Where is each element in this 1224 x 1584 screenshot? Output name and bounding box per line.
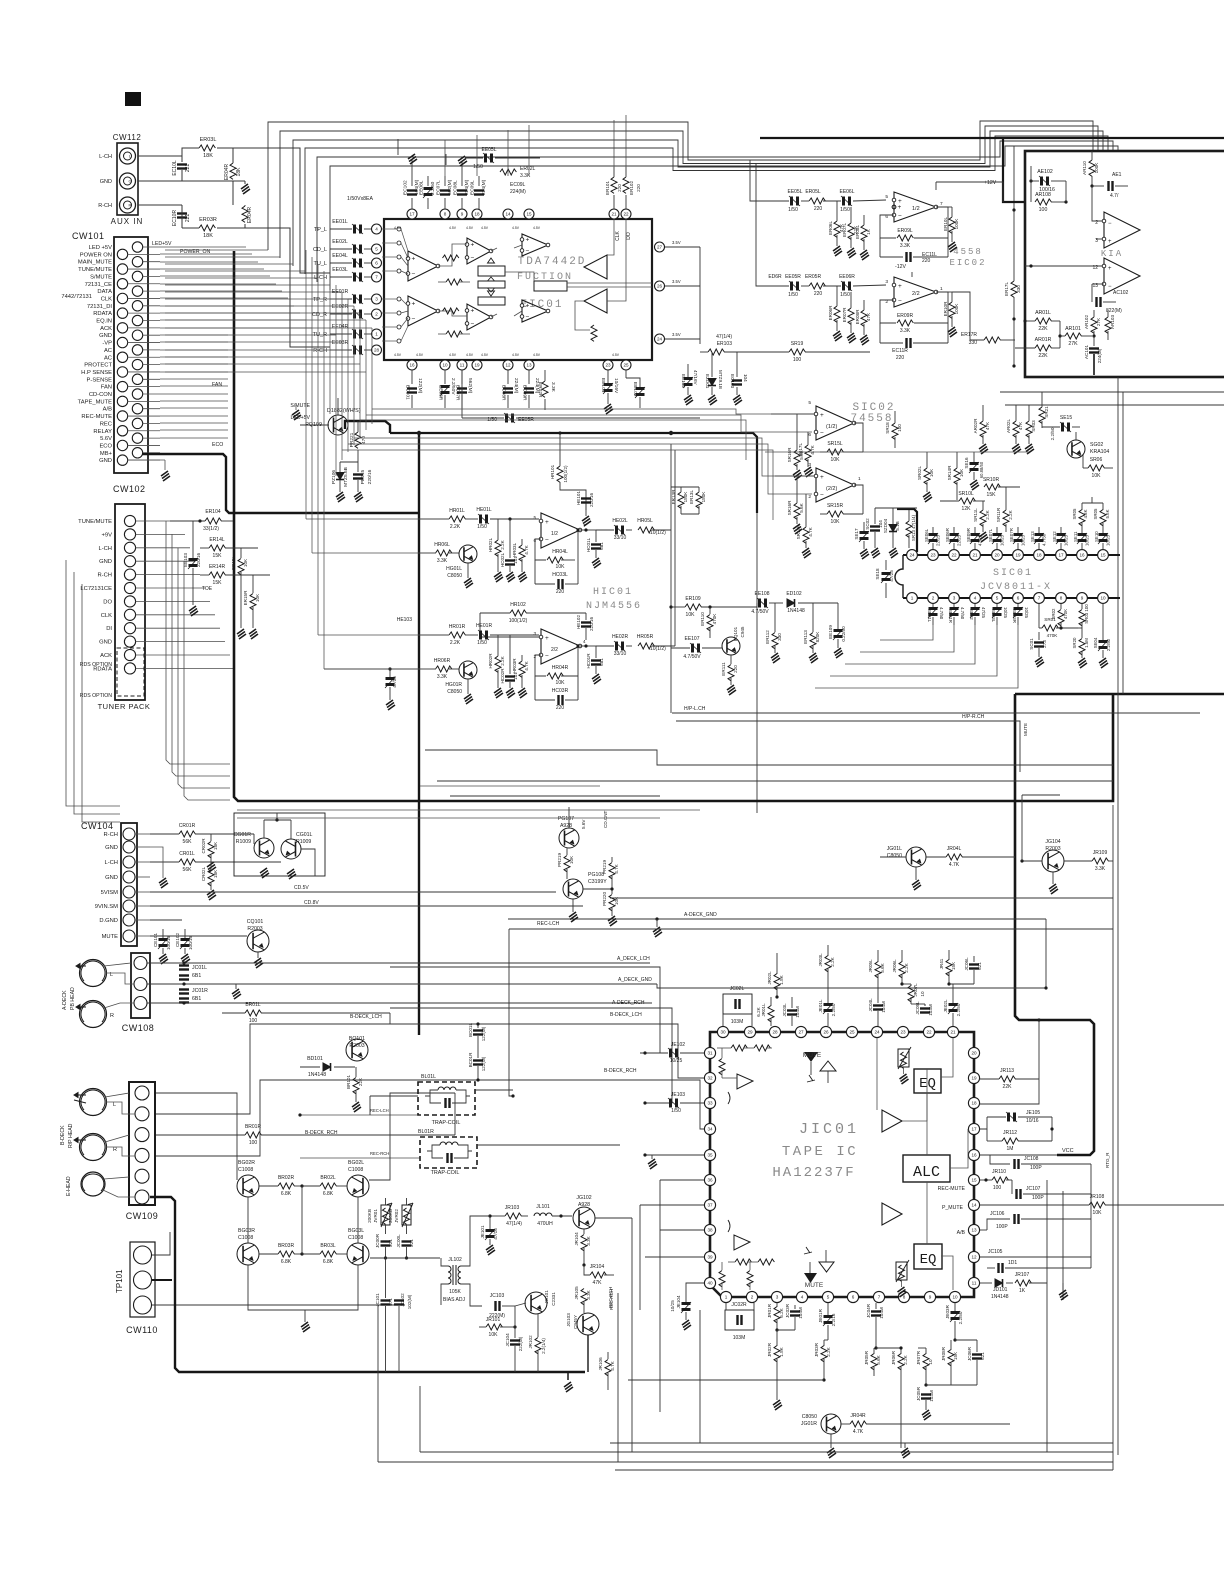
svg-text:JR110: JR110	[992, 1169, 1006, 1175]
svg-text:HR06R: HR06R	[434, 658, 451, 664]
svg-text:B-DECK_RCH: B-DECK_RCH	[305, 1130, 338, 1136]
svg-text:-12V: -12V	[895, 264, 906, 270]
svg-text:R: R	[113, 1147, 117, 1153]
JIC01 bottom pin 3	[771, 1291, 782, 1302]
svg-text:+: +	[898, 283, 902, 290]
svg-text:2.2K: 2.2K	[830, 956, 835, 966]
svg-text:S/MUTE: S/MUTE	[90, 274, 112, 280]
wire left pins 35-40 stubs	[645, 1154, 704, 1156]
wire far-left verticals	[66, 560, 120, 806]
JIC01 top pin 26	[820, 1026, 831, 1037]
svg-text:CLK: CLK	[101, 613, 112, 619]
svg-text:2.2K: 2.2K	[450, 524, 461, 530]
svg-text:4.7/50: 4.7/50	[960, 607, 965, 620]
svg-text:18: 18	[1036, 553, 1042, 558]
svg-text:1/50Vx8EA: 1/50Vx8EA	[347, 196, 373, 202]
wire left-of-JIC verticals	[659, 1180, 661, 1412]
svg-text:1.5M: 1.5M	[1084, 638, 1089, 648]
CW101 pin 22 TAPE_MUTE	[117, 396, 127, 406]
resistor HR05R 10(1/2)	[638, 643, 654, 649]
svg-text:28: 28	[374, 348, 380, 353]
EIC01 pin 27 wire to SIC02 area	[699, 247, 701, 344]
svg-text:10/25: 10/25	[1003, 607, 1008, 619]
CW101 pin 15 AC	[132, 345, 142, 355]
svg-text:SE03L: SE03L	[991, 609, 996, 623]
svg-text:JR01L: JR01L	[761, 1003, 766, 1017]
svg-text:37: 37	[707, 1203, 713, 1208]
JIC01 left pin 39	[704, 1251, 715, 1262]
CW109 pin 6	[135, 1190, 149, 1204]
wire bottom long buses	[610, 1442, 1113, 1444]
capacitor EE01R input pin 3	[372, 294, 382, 304]
svg-text:GND: GND	[99, 458, 112, 464]
svg-text:JIC01: JIC01	[799, 1121, 859, 1138]
svg-text:5: 5	[808, 400, 811, 406]
svg-text:EE01L: EE01L	[332, 219, 348, 225]
svg-text:HC03L: HC03L	[552, 572, 568, 578]
SIC01 bottom pin 2	[928, 593, 939, 604]
resistor HR01L 2.2K	[449, 516, 465, 522]
EIC01 bottom pin 19	[472, 360, 482, 370]
CW109 pin 3	[135, 1128, 149, 1142]
CW109 pin 4	[135, 1148, 149, 1162]
svg-text:56K: 56K	[183, 839, 193, 845]
resistor ER104 33(1/2)	[205, 518, 221, 524]
wire HIC01 out1	[580, 529, 596, 531]
capacitor BC01R 122(M)	[473, 1061, 483, 1065]
svg-text:16: 16	[409, 363, 415, 368]
JIC01 top pin 28	[769, 1026, 780, 1037]
JIC01 bottom pin 7	[873, 1291, 884, 1302]
wire +12V thick feed	[760, 137, 1224, 139]
capacitor SE01R 4.7/50	[949, 607, 959, 618]
svg-text:3: 3	[953, 596, 956, 601]
svg-text:7442/72131: 7442/72131	[61, 294, 92, 300]
CW101 pin 29 MB+	[132, 448, 142, 458]
capacitor HC02R 101	[505, 677, 515, 681]
wire right vertical x1118 extended	[1117, 720, 1119, 1455]
svg-text:10: 10	[952, 1295, 958, 1300]
svg-text:100P: 100P	[1032, 1195, 1044, 1201]
capacitor JC02L 103M	[723, 994, 752, 1014]
svg-text:JC00L: JC00L	[396, 1234, 401, 1248]
svg-text:JR104: JR104	[574, 1232, 579, 1246]
svg-text:103M: 103M	[731, 1019, 744, 1025]
svg-text:23: 23	[900, 1030, 906, 1035]
svg-text:ER113: ER113	[803, 630, 808, 644]
A-DECK head L	[80, 960, 107, 987]
svg-text:14: 14	[505, 212, 511, 217]
svg-text:25: 25	[623, 363, 629, 368]
svg-text:4.5V: 4.5V	[481, 226, 489, 230]
svg-text:CG01L: CG01L	[296, 832, 313, 838]
svg-text:2.2K: 2.2K	[985, 509, 990, 519]
svg-text:20: 20	[971, 1051, 977, 1056]
svg-text:100: 100	[1039, 207, 1048, 213]
resistor SR10L 12K	[959, 498, 975, 504]
svg-text:G: G	[128, 179, 131, 184]
svg-text:1.5K: 1.5K	[779, 1346, 784, 1356]
svg-text:EIC02: EIC02	[949, 258, 986, 268]
svg-text:ER07R: ER07R	[842, 307, 847, 322]
svg-text:AR102: AR102	[1084, 315, 1089, 329]
JIC01 EQ block bottom	[914, 1244, 942, 1269]
svg-text:HR02L: HR02L	[488, 537, 493, 552]
svg-text:JG104: JG104	[1045, 839, 1060, 845]
svg-text:CD_L: CD_L	[313, 247, 327, 253]
svg-text:220: 220	[636, 184, 641, 192]
svg-text:SR02: SR02	[1051, 608, 1056, 620]
wire trap coil feed	[370, 1095, 418, 1097]
resistor JR108 10K	[1089, 1202, 1105, 1208]
svg-text:HG01R: HG01R	[445, 682, 462, 688]
CW102 pin 9 DI	[124, 623, 135, 634]
JIC01 top pin 27	[795, 1026, 806, 1037]
svg-text:EC11R: EC11R	[892, 348, 908, 354]
resistor JR103 47(1/4)	[505, 1213, 521, 1219]
svg-text:3.3K: 3.3K	[900, 328, 911, 334]
capacitor JC00L 221	[402, 1242, 412, 1246]
svg-text:5: 5	[827, 1295, 830, 1300]
svg-text:ER17R: ER17R	[961, 332, 978, 338]
svg-text:224(M): 224(M)	[481, 179, 487, 195]
svg-text:HR04L: HR04L	[552, 549, 568, 555]
svg-text:+: +	[471, 242, 475, 249]
svg-text:4.5V: 4.5V	[416, 353, 424, 357]
net +12V	[935, 182, 937, 190]
capacitor EC11R 220	[907, 338, 911, 348]
svg-text:CW104: CW104	[81, 821, 114, 831]
op-amp EIC02 1/2	[893, 206, 895, 208]
svg-text:17: 17	[1058, 553, 1064, 558]
svg-text:220/16: 220/16	[196, 553, 201, 567]
svg-text:EC102: EC102	[403, 180, 409, 195]
EIC01 bottom pin 25	[621, 360, 631, 370]
resistor HR03R 4.7K	[519, 661, 525, 677]
resistor HR04R 10K feedback	[535, 655, 546, 676]
svg-text:47(1/4): 47(1/4)	[716, 334, 732, 340]
ground A-deck mid	[232, 989, 241, 999]
svg-text:−: −	[471, 321, 475, 328]
capacitor SE02 47/25	[970, 607, 980, 618]
svg-text:C945: C945	[740, 626, 745, 637]
svg-text:EE05L: EE05L	[787, 189, 802, 195]
svg-text:JC01R: JC01R	[192, 988, 208, 994]
CW102 pin 4 GND	[124, 556, 135, 567]
svg-text:+: +	[820, 412, 824, 419]
svg-text:SC01: SC01	[1029, 638, 1034, 650]
JIC01 right pin 13	[968, 1224, 979, 1235]
svg-text:224(M): 224(M)	[464, 179, 470, 195]
capacitor JC107 100P	[1017, 1189, 1021, 1199]
svg-text:A/B: A/B	[957, 1230, 966, 1236]
svg-text:ER111: ER111	[721, 662, 726, 676]
svg-text:6B1: 6B1	[192, 973, 201, 979]
capacitor HE102 220/16	[581, 623, 591, 627]
svg-text:222(M): 222(M)	[518, 1336, 523, 1351]
svg-text:1D1: 1D1	[1008, 1260, 1017, 1266]
svg-text:4.5V: 4.5V	[612, 353, 620, 357]
resistor JR06L 2.2K	[899, 962, 905, 978]
svg-text:SE13: SE13	[1030, 531, 1035, 542]
capacitor BC01L 122(M)	[473, 1031, 483, 1035]
svg-text:3.5V: 3.5V	[672, 332, 681, 337]
svg-text:ED6R: ED6R	[768, 274, 782, 280]
svg-text:EQ: EQ	[920, 1252, 937, 1268]
svg-text:−: −	[820, 430, 824, 437]
svg-text:EQ101: EQ101	[733, 626, 738, 641]
JIC01 right pin 12	[968, 1251, 979, 1262]
svg-text:220: 220	[617, 184, 622, 192]
JIC01 inner network bottom-left	[734, 1235, 750, 1250]
CW101 pin 2 POWER ON	[117, 249, 127, 259]
svg-text:HR02R: HR02R	[488, 653, 493, 669]
svg-text:2.2/50: 2.2/50	[1106, 638, 1111, 651]
capacitor EE04L input pin 6	[372, 258, 382, 268]
svg-text:RDS OPTION: RDS OPTION	[80, 662, 113, 668]
svg-text:C945Y: C945Y	[573, 1315, 578, 1329]
svg-text:1: 1	[375, 332, 378, 337]
svg-text:1/50: 1/50	[671, 1108, 681, 1114]
capacitor HC03R 220	[559, 695, 563, 705]
svg-text:19: 19	[1015, 553, 1021, 558]
capacitor JC03L 104M	[787, 1011, 797, 1015]
capacitor JC05R 103M	[921, 1395, 931, 1399]
JL102 wires	[441, 1258, 448, 1266]
svg-text:SR15L: SR15L	[827, 441, 843, 447]
wire JG102 collector right	[595, 1217, 632, 1219]
capacitor HE01L 1/50	[478, 514, 489, 524]
wire thick left vertical bus x234	[234, 251, 1109, 801]
capacitor EC07L 562(M)	[444, 198, 446, 209]
svg-text:TU_L: TU_L	[314, 261, 327, 267]
svg-text:15: 15	[971, 1178, 977, 1183]
capacitor EE101 10/16V	[603, 383, 613, 394]
svg-text:4.7K: 4.7K	[524, 660, 529, 670]
svg-text:36: 36	[707, 1178, 713, 1183]
svg-text:ALC: ALC	[913, 1164, 940, 1181]
svg-text:D1882(WH/S): D1882(WH/S)	[327, 408, 361, 414]
SIC01 top pin 22	[949, 550, 960, 561]
svg-text:EE08L: EE08L	[419, 180, 425, 195]
svg-text:+: +	[526, 237, 530, 244]
svg-text:ACK: ACK	[100, 326, 112, 332]
svg-text:−: −	[1108, 284, 1112, 290]
svg-text:104: 104	[743, 374, 748, 382]
resistor JR07R 10	[923, 1354, 929, 1370]
B-DECK head R	[80, 1134, 107, 1161]
wire bus line 3	[293, 131, 1103, 266]
svg-text:BD101: BD101	[307, 1056, 323, 1062]
capacitor PE215 220/16	[353, 475, 363, 479]
JIC01 left pin 37	[704, 1199, 715, 1210]
svg-text:EE04L: EE04L	[332, 253, 348, 259]
svg-text:ER05R: ER05R	[805, 274, 822, 280]
capacitor CE102 100/16	[180, 938, 190, 949]
svg-text:105K: 105K	[449, 1289, 461, 1295]
wire CW101 comb to bus	[160, 246, 246, 248]
svg-text:JC02R: JC02R	[731, 1302, 747, 1308]
svg-text:6.2K: 6.2K	[756, 1006, 761, 1016]
svg-text:SR05: SR05	[1072, 508, 1077, 520]
svg-text:MAIN_MUTE: MAIN_MUTE	[78, 260, 112, 266]
svg-text:47/16: 47/16	[493, 1228, 498, 1240]
svg-text:562(M): 562(M)	[467, 378, 473, 394]
svg-text:(2/2): (2/2)	[826, 486, 837, 492]
svg-text:HIC01: HIC01	[593, 587, 633, 598]
svg-text:27: 27	[798, 1030, 804, 1035]
svg-text:JC105: JC105	[988, 1249, 1003, 1255]
svg-text:JR101: JR101	[486, 1317, 501, 1323]
svg-text:13: 13	[971, 1228, 977, 1233]
wire AUX GND	[138, 180, 233, 182]
svg-text:+: +	[1108, 239, 1112, 245]
svg-text:221: 221	[185, 164, 191, 173]
svg-text:ECO: ECO	[99, 443, 112, 449]
svg-text:330: 330	[1016, 285, 1021, 293]
svg-text:4.5V: 4.5V	[466, 226, 474, 230]
svg-text:ER04R: ER04R	[247, 207, 253, 224]
wire mid lines y750 y765 y781	[425, 750, 1113, 765]
svg-text:−: −	[820, 492, 824, 499]
svg-text:GND: GND	[99, 640, 112, 646]
svg-text:621: 621	[977, 962, 982, 970]
capacitor JE103 1/50	[668, 1098, 679, 1108]
JIC01 left pin 36	[704, 1174, 715, 1185]
svg-text:8: 8	[444, 212, 447, 217]
SIC01 top pin 21	[970, 550, 981, 561]
svg-text:4: 4	[801, 1295, 804, 1300]
svg-text:26: 26	[823, 1030, 829, 1035]
svg-text:GND: GND	[100, 179, 112, 185]
capacitor EC11L 220	[907, 252, 911, 262]
svg-text:4.5V: 4.5V	[481, 353, 489, 357]
resistor SR14R 10K	[954, 468, 960, 484]
wire TP101 links	[152, 1232, 170, 1255]
svg-text:220: 220	[814, 291, 823, 297]
svg-text:4.5V: 4.5V	[533, 353, 541, 357]
ground CW104 GND	[150, 847, 163, 878]
resistor ER09L 3.3K feedback	[880, 215, 896, 238]
JIC01 bottom pin 1	[720, 1291, 731, 1302]
capacitor JC04L 104M	[873, 1006, 883, 1010]
svg-text:1/50: 1/50	[477, 524, 487, 530]
svg-text:1/50: 1/50	[840, 292, 850, 298]
svg-text:ER10L: ER10L	[943, 217, 948, 231]
EIC02 L input chain	[789, 196, 800, 206]
svg-text:SZD04: SZD04	[883, 518, 888, 533]
svg-text:TP_R: TP_R	[313, 297, 327, 303]
svg-text:31: 31	[707, 1051, 713, 1056]
svg-text:HR05R: HR05R	[637, 634, 654, 640]
capacitor SE01L 4.7/50	[928, 607, 938, 618]
svg-text:PR220: PR220	[602, 892, 607, 906]
svg-text:R: R	[110, 1013, 114, 1019]
svg-text:18K: 18K	[213, 869, 218, 878]
capacitor HC03L 220	[559, 579, 563, 589]
ground JR107 net	[1059, 1290, 1068, 1300]
wire thick right vertical x1015	[1015, 694, 1094, 1155]
svg-text:+12V: +12V	[984, 180, 997, 186]
svg-text:27K: 27K	[1068, 341, 1078, 347]
svg-text:SE02: SE02	[969, 609, 974, 620]
capacitor HC01R 681	[591, 661, 601, 665]
EIC01 top pin 18	[472, 209, 482, 219]
JIC01 left pin 31	[704, 1047, 715, 1058]
svg-text:ER104: ER104	[205, 509, 221, 515]
svg-text:C1008: C1008	[348, 1167, 363, 1173]
svg-text:JR02R: JR02R	[767, 1342, 772, 1357]
svg-text:4.7K: 4.7K	[853, 1429, 864, 1435]
resistor SR15L 10K	[827, 449, 843, 455]
svg-text:12K: 12K	[962, 506, 972, 512]
CW102 pin 1 TUNE/MUTE	[124, 515, 135, 526]
resistor BR03L 6.8K	[320, 1251, 336, 1257]
svg-text:EE06R: EE06R	[839, 274, 855, 280]
resistor BR01R 100	[245, 1132, 261, 1138]
svg-text:JE02L: JE02L	[943, 999, 948, 1012]
ground bottom rail	[567, 1372, 569, 1380]
svg-text:10(1/2): 10(1/2)	[650, 530, 666, 536]
svg-text:681: 681	[599, 542, 604, 550]
svg-text:JE105: JE105	[1026, 1110, 1040, 1116]
svg-text:BG02L: BG02L	[348, 1160, 364, 1166]
svg-text:BR01L: BR01L	[245, 1002, 261, 1008]
svg-text:SE07L: SE07L	[988, 528, 993, 542]
svg-text:C8050: C8050	[447, 689, 462, 695]
svg-text:220: 220	[896, 355, 905, 361]
capacitor HE02L 33/10	[614, 525, 625, 535]
svg-text:38: 38	[707, 1228, 713, 1233]
resistor SR19 100	[789, 349, 805, 355]
svg-text:17: 17	[971, 1127, 977, 1132]
JIC01 inner vertical wires	[876, 1038, 878, 1110]
A-DECK head R	[80, 1001, 107, 1028]
svg-text:JR109: JR109	[1093, 850, 1108, 856]
svg-text:221: 221	[388, 1239, 393, 1247]
transistor SG02 KRA104	[1067, 440, 1085, 458]
resistor SR03b 100	[1079, 610, 1085, 626]
svg-text:EC07R: EC07R	[455, 385, 461, 401]
capacitor SE06L 22/25	[928, 533, 938, 544]
wire A-deck R row	[147, 1002, 652, 1004]
EIC01 internal input switches	[397, 227, 401, 231]
wire horizontals to SIC02/HIC01 inputs	[372, 409, 814, 414]
diode JD101 1N4148	[995, 1279, 1003, 1287]
JIC01 right pin 16	[968, 1149, 979, 1160]
CW101 pin 20 FAN	[117, 381, 127, 391]
svg-text:25: 25	[849, 1030, 855, 1035]
svg-text:224(M): 224(M)	[510, 189, 526, 195]
svg-text:REC-RCH: REC-RCH	[370, 1151, 389, 1156]
svg-text:GND: GND	[105, 875, 118, 881]
svg-text:FAN: FAN	[212, 382, 222, 388]
svg-text:MUTE: MUTE	[805, 1282, 824, 1289]
svg-text:6: 6	[808, 432, 811, 438]
svg-text:CD-CON: CD-CON	[89, 392, 112, 398]
svg-text:AUX IN: AUX IN	[111, 217, 144, 226]
CW101 pin 11 EQ.IN	[132, 315, 142, 325]
svg-text:DO: DO	[103, 599, 112, 605]
svg-text:B-DECK_LCH: B-DECK_LCH	[350, 1014, 382, 1020]
svg-text:EE03R: EE03R	[332, 340, 349, 346]
wire pin12 to left edge	[1025, 265, 1102, 267]
svg-text:HC02R: HC02R	[500, 668, 505, 684]
CW104 pin MUTE	[123, 930, 135, 942]
svg-text:JR05L: JR05L	[868, 959, 873, 973]
EIC01 right pin 26	[655, 281, 665, 291]
svg-text:+: +	[820, 474, 824, 481]
